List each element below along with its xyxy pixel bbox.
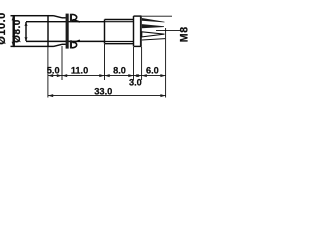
chain arrows at t2: [99, 74, 109, 77]
rear housing bottom: [134, 45, 142, 47]
neck bottom line: [62, 43, 66, 45]
head bezel rect: [14, 16, 48, 47]
spring clip lower stroke: [70, 40, 72, 48]
terminal 2 center pin wire: [156, 30, 181, 32]
chain arrows at t3: [128, 74, 138, 77]
extension line t5: [165, 28, 167, 98]
thread outer top: [105, 19, 134, 21]
extension line t3: [133, 47, 135, 80]
svg-text:Ø10.0: Ø10.0: [0, 12, 8, 44]
spring clip lower bowl: [72, 42, 77, 48]
terminal 1 top line: [142, 15, 172, 17]
svg-text:11.0: 11.0: [71, 65, 88, 75]
chamfer top: [54, 16, 63, 18]
terminal 3 wedge outline: [142, 32, 165, 37]
arrowhead D10 down: [12, 42, 15, 47]
thread outer bottom: [105, 43, 134, 45]
flange bar: [66, 14, 69, 49]
arrowhead D8 down: [25, 37, 28, 41]
thread root top: [105, 21, 134, 23]
extension stub top D10: [11, 15, 15, 17]
rear housing top: [134, 15, 142, 17]
extension line t2: [104, 44, 106, 80]
svg-text:8.0: 8.0: [113, 65, 126, 75]
dimension line D10: [12, 17, 14, 46]
extension stub bottom D10: [11, 45, 15, 47]
chain arrow at t5 right: [160, 74, 165, 77]
svg-text:33.0: 33.0: [94, 87, 112, 97]
chamfer bottom: [54, 44, 63, 46]
spring clip upper stroke: [70, 14, 72, 22]
svg-text:Ø8.0: Ø8.0: [12, 19, 23, 43]
terminal 3 lower line: [142, 39, 165, 40]
chain arrows at t4: [136, 74, 146, 77]
arrowhead D10 up: [12, 16, 15, 21]
terminal 2 wedge: [142, 24, 164, 28]
body line top (through head to thread start): [26, 21, 105, 23]
spring clip upper leg: [73, 19, 80, 22]
arrow 33.0 left: [48, 94, 53, 97]
overall dimension line 33.0: [48, 95, 166, 97]
chain arrow at t0 left: [48, 74, 53, 77]
extension line t1: [61, 46, 63, 80]
collar top line: [48, 15, 54, 17]
thread end vertical: [133, 16, 135, 46]
svg-text:M8: M8: [179, 26, 191, 42]
extension line t4: [141, 47, 143, 80]
neck top line: [62, 17, 66, 19]
extension line t0: [47, 47, 49, 98]
svg-text:6.0: 6.0: [146, 65, 159, 75]
svg-text:5.0: 5.0: [47, 65, 60, 75]
thread root bottom: [105, 40, 134, 42]
svg-text:3.0: 3.0: [129, 77, 142, 87]
rear face bar: [140, 16, 142, 46]
spring clip lower leg: [73, 40, 80, 43]
arrow 33.0 right: [160, 94, 165, 97]
collar bottom line: [48, 45, 54, 47]
chain dimension line: [48, 75, 166, 77]
body line bottom: [26, 40, 105, 42]
dimension line D8: [25, 22, 27, 41]
spring clip upper bowl: [72, 14, 77, 20]
thread start vertical: [104, 20, 106, 44]
arrowhead D8 up: [25, 22, 28, 26]
chain arrows at t1: [57, 74, 67, 77]
terminal 1 wedge: [142, 18, 165, 22]
